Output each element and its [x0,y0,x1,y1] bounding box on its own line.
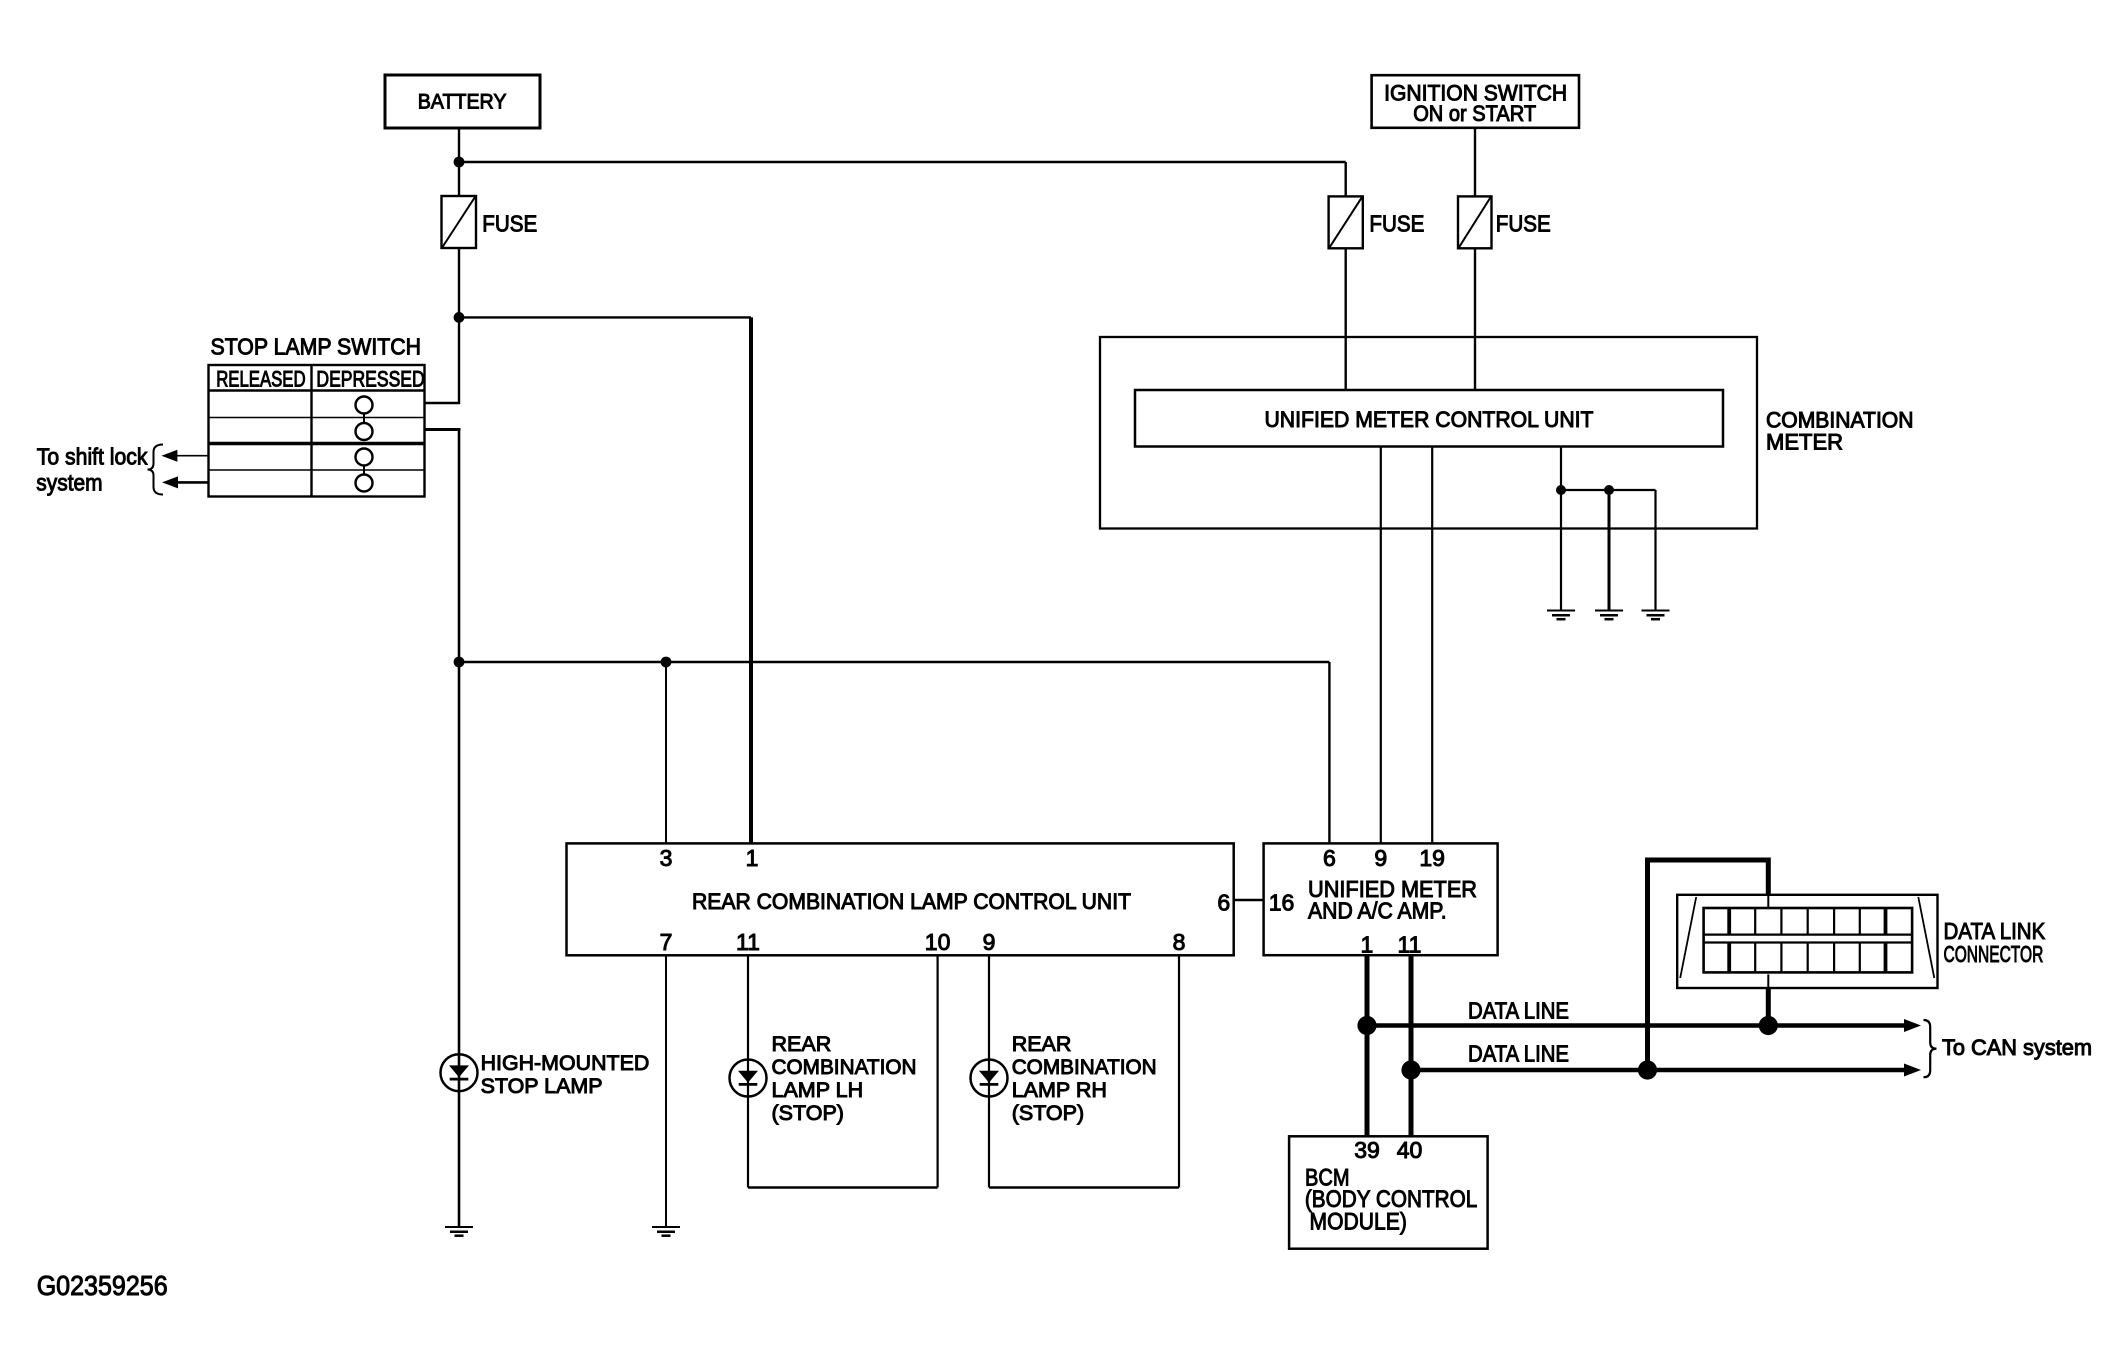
svg-text:LAMP RH: LAMP RH [1012,1078,1107,1102]
svg-text:COMBINATION: COMBINATION [1012,1055,1157,1079]
svg-text:DEPRESSED: DEPRESSED [316,367,424,392]
svg-text:STOP LAMP SWITCH: STOP LAMP SWITCH [211,334,422,360]
svg-text:REAR: REAR [1012,1032,1072,1056]
svg-text:CONNECTOR: CONNECTOR [1944,941,2044,967]
svg-text:COMBINATION: COMBINATION [772,1055,917,1079]
svg-text:7: 7 [660,929,673,955]
svg-text:1: 1 [1361,932,1374,958]
svg-text:RELEASED: RELEASED [216,367,305,392]
svg-text:To CAN system: To CAN system [1942,1035,2092,1060]
svg-text:(STOP): (STOP) [1012,1101,1084,1125]
svg-text:UNIFIED METER CONTROL UNIT: UNIFIED METER CONTROL UNIT [1265,407,1594,432]
svg-text:DATA LINE: DATA LINE [1468,998,1569,1024]
svg-text:METER: METER [1766,430,1843,455]
svg-text:STOP LAMP: STOP LAMP [481,1074,603,1098]
svg-text:39: 39 [1354,1137,1380,1163]
svg-text:LAMP LH: LAMP LH [772,1078,864,1102]
svg-text:16: 16 [1269,890,1295,916]
svg-text:11: 11 [736,929,760,955]
svg-text:19: 19 [1419,845,1445,871]
svg-text:BATTERY: BATTERY [418,90,507,114]
svg-text:1: 1 [746,845,759,871]
svg-text:40: 40 [1397,1137,1423,1163]
svg-text:FUSE: FUSE [482,211,537,237]
svg-text:FUSE: FUSE [1496,211,1551,237]
svg-text:ON or START: ON or START [1413,101,1536,126]
svg-text:3: 3 [660,845,673,871]
svg-text:FUSE: FUSE [1369,211,1424,237]
svg-text:G02359256: G02359256 [37,1270,168,1301]
svg-text:AND A/C AMP.: AND A/C AMP. [1308,898,1447,924]
svg-text:11: 11 [1398,932,1422,958]
svg-text:9: 9 [1374,845,1387,871]
svg-text:10: 10 [925,929,951,955]
svg-text:6: 6 [1323,845,1336,871]
svg-text:REAR: REAR [772,1032,832,1056]
svg-text:8: 8 [1173,929,1186,955]
svg-text:MODULE): MODULE) [1310,1209,1407,1236]
svg-text:HIGH-MOUNTED: HIGH-MOUNTED [481,1051,650,1075]
svg-text:6: 6 [1217,890,1230,916]
svg-text:REAR COMBINATION LAMP CONTROL: REAR COMBINATION LAMP CONTROL UNIT [692,889,1131,914]
svg-text:(STOP): (STOP) [772,1101,844,1125]
svg-text:system: system [36,470,102,496]
svg-text:To shift lock: To shift lock [37,444,148,470]
svg-text:9: 9 [983,929,996,955]
svg-text:DATA LINE: DATA LINE [1468,1041,1569,1067]
